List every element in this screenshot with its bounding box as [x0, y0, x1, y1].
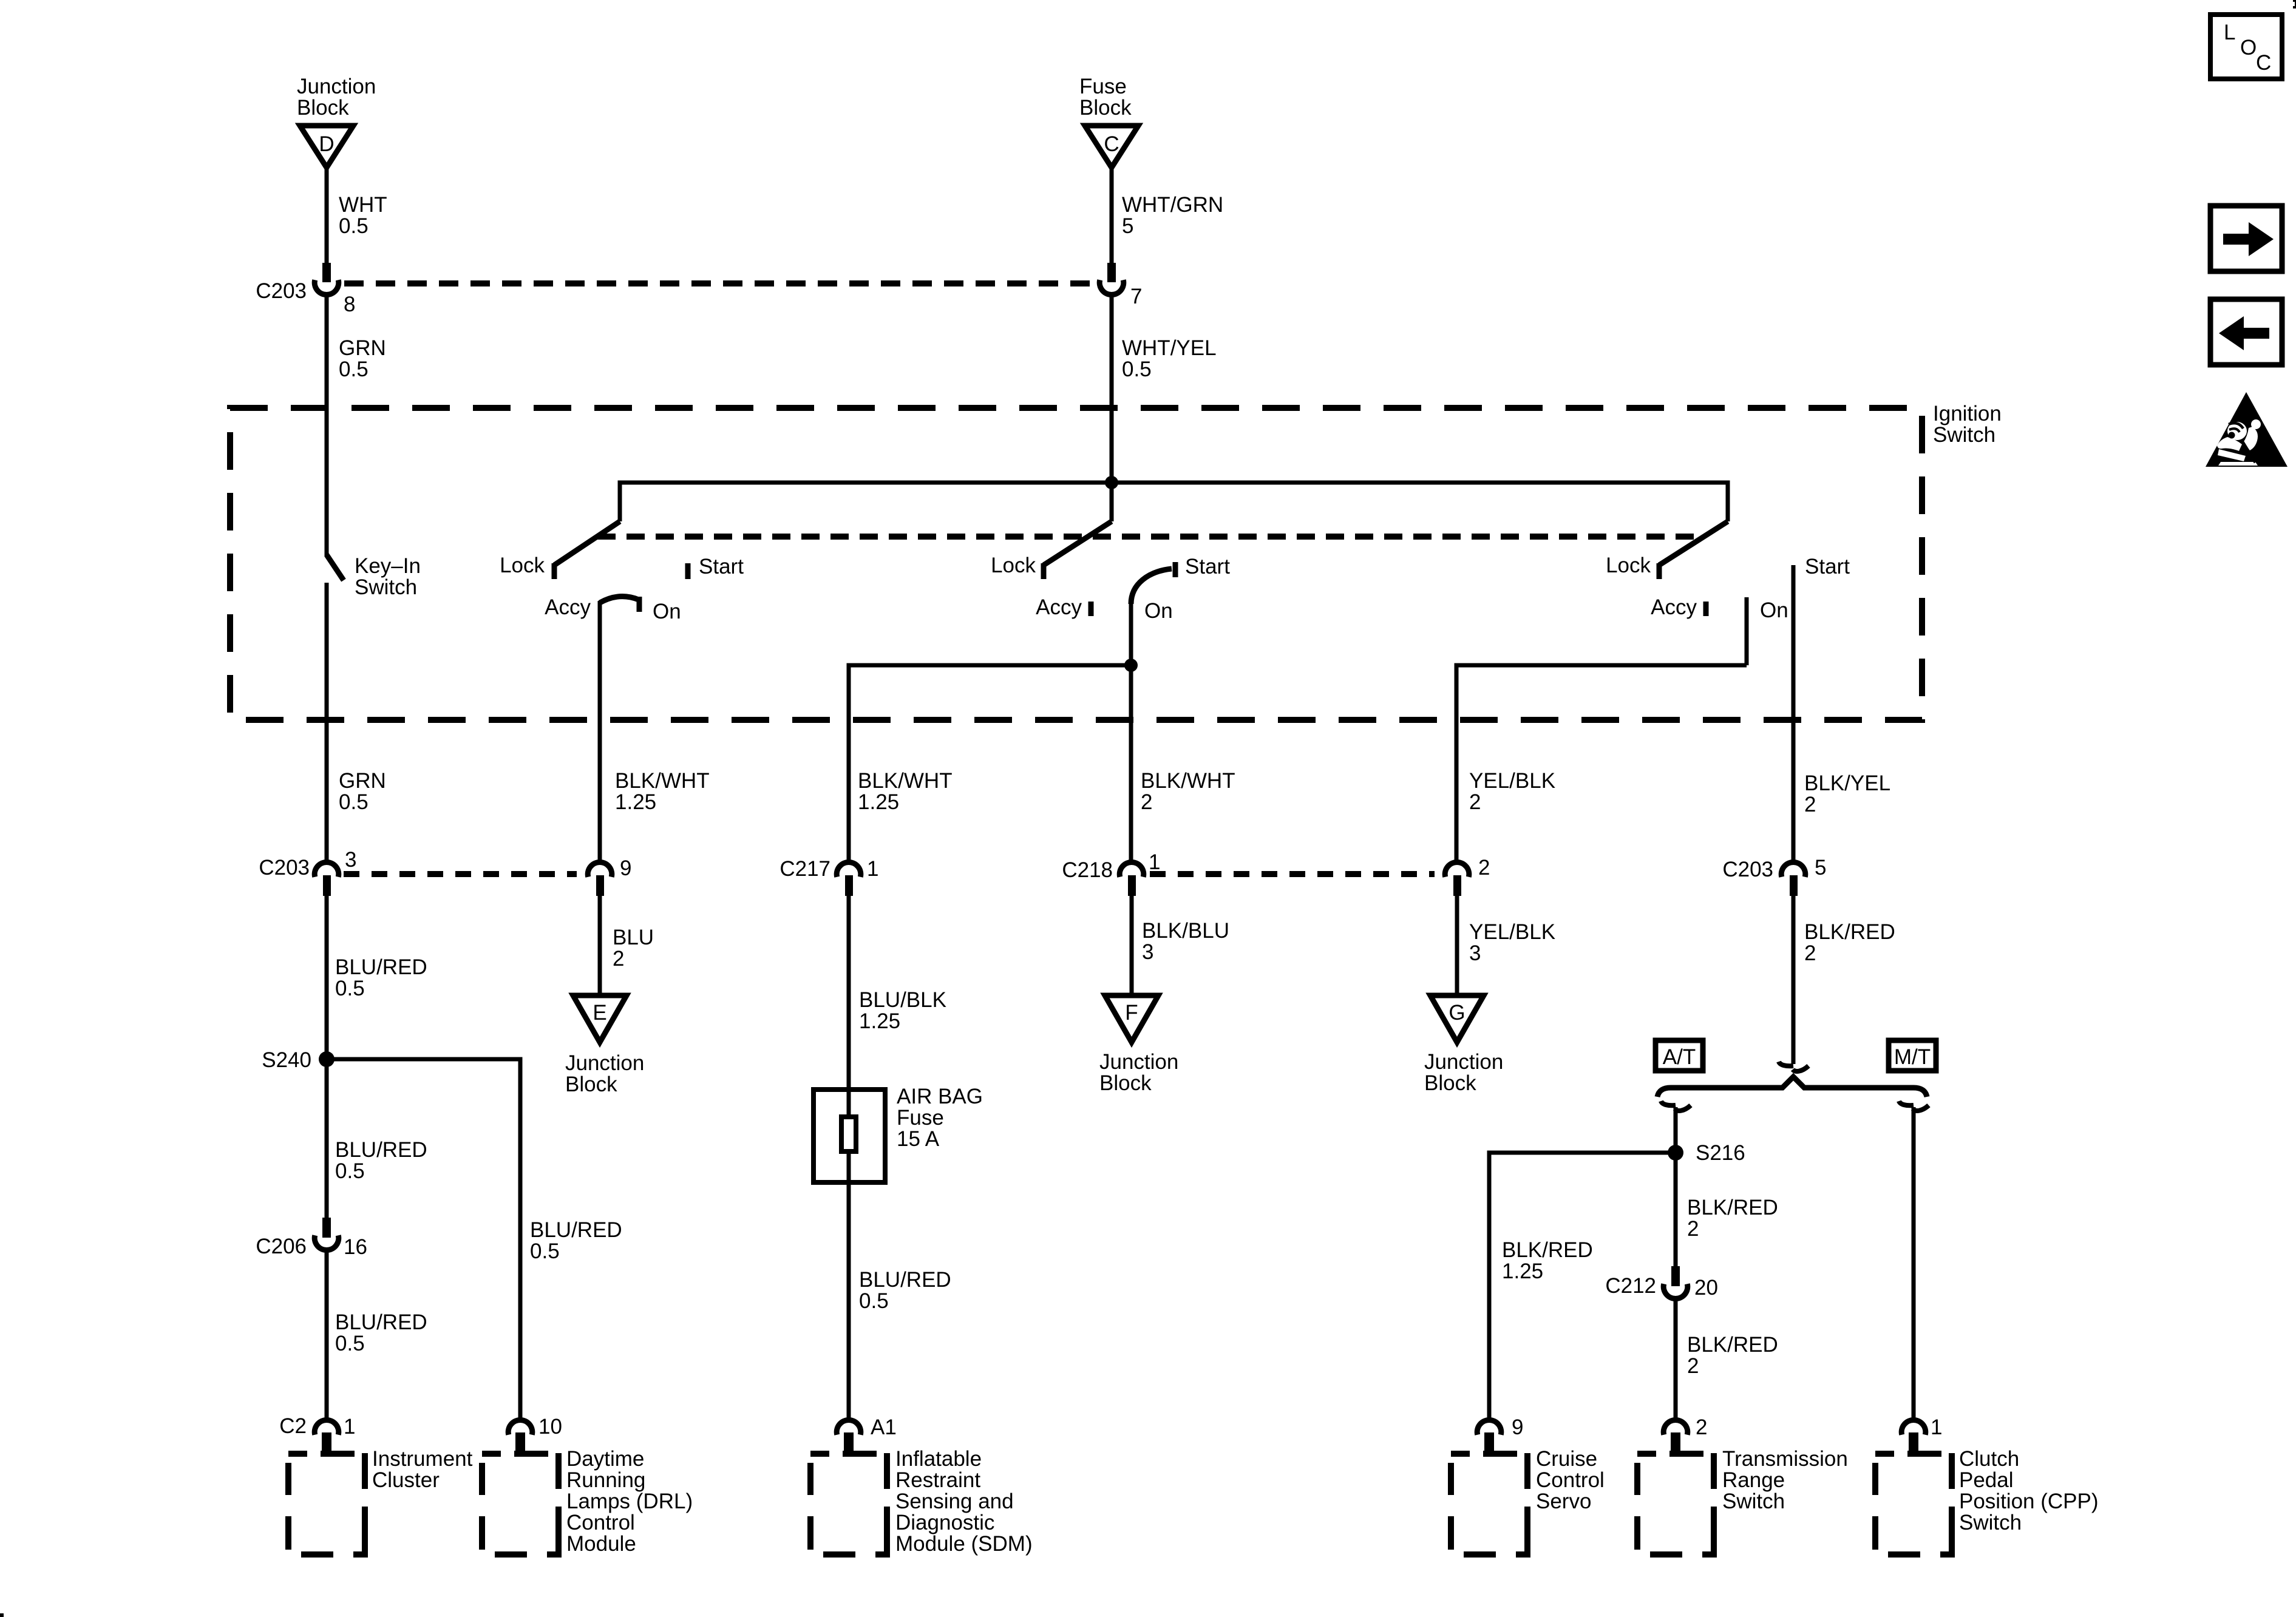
wire switch 3 Start contact (BLK/YEL feed) — [1792, 565, 1796, 862]
svg-text:1.25: 1.25 — [1502, 1259, 1543, 1283]
svg-text:A/T: A/T — [1663, 1045, 1696, 1069]
connector pin 1 (CPP switch) — [1901, 1415, 1942, 1454]
svg-text:BLU/RED: BLU/RED — [335, 1310, 427, 1334]
dotted mechanical link line — [597, 534, 1703, 540]
connector pin 10 (DRL module) — [508, 1415, 562, 1454]
svg-text:9: 9 — [620, 856, 631, 880]
wire BLU/BLK 1.25 (C217 to fuse) — [849, 895, 946, 1117]
svg-text:Block: Block — [565, 1073, 617, 1096]
forward arrow box — [2210, 206, 2282, 271]
wire BLU/RED 0.5 (S240 to C206) — [327, 1059, 427, 1218]
svg-text:Lock: Lock — [500, 554, 545, 577]
svg-text:On: On — [653, 600, 681, 623]
wire branch start/on to G — [1456, 665, 1747, 862]
svg-text:Clutch: Clutch — [1959, 1447, 2019, 1471]
svg-text:BLK/RED: BLK/RED — [1502, 1238, 1593, 1262]
wire A/T leg down to S216 — [1674, 1107, 1678, 1153]
label GRN 0.5 — [339, 769, 386, 814]
svg-text:C212: C212 — [1605, 1274, 1656, 1298]
svg-text:3: 3 — [1469, 941, 1481, 965]
svg-text:2: 2 — [1804, 793, 1816, 816]
wire col2 down to pin 9 — [598, 720, 602, 862]
wire bus drop middle — [1110, 483, 1114, 521]
svg-text:Instrument: Instrument — [372, 1447, 473, 1471]
dashed harness line C203 pins 8-7 — [344, 280, 1094, 286]
connector C218 pin 1 — [1062, 850, 1160, 896]
connector C2 pin 1 (instrument cluster) — [279, 1414, 355, 1454]
connector pin 9 (cruise servo) — [1477, 1415, 1523, 1454]
label BLK/WHT 1.25 (col2) — [615, 769, 710, 814]
svg-text:1: 1 — [867, 857, 878, 881]
svg-text:3: 3 — [345, 848, 356, 872]
daytime running lamps control module box — [482, 1447, 693, 1556]
wire BLU/RED 0.5 (fuse to SDM) — [849, 1151, 951, 1420]
svg-text:0.5: 0.5 — [335, 977, 365, 1000]
svg-text:3: 3 — [1142, 940, 1153, 964]
svg-text:2: 2 — [1469, 790, 1481, 814]
wire break mark (main) — [1779, 1062, 1809, 1071]
svg-text:F: F — [1125, 1001, 1138, 1025]
wire break mark (M/T leg) — [1899, 1101, 1929, 1111]
ignition switch dashed enclosure — [230, 402, 2002, 720]
svg-text:Junction: Junction — [1424, 1050, 1503, 1074]
svg-text:C203: C203 — [1722, 858, 1773, 881]
wire col1 down to C203-3 — [325, 720, 329, 862]
svg-text:Lock: Lock — [1606, 554, 1651, 577]
svg-text:BLU/RED: BLU/RED — [530, 1218, 622, 1242]
label BLK/YEL 2 (col6) — [1804, 771, 1890, 816]
wire break mark (A/T leg) — [1661, 1101, 1691, 1111]
svg-text:0.5: 0.5 — [859, 1289, 889, 1313]
svg-text:Restraint: Restraint — [895, 1468, 980, 1492]
svg-text:Fuse: Fuse — [897, 1106, 944, 1130]
svg-text:Running: Running — [566, 1468, 645, 1492]
svg-text:1: 1 — [344, 1415, 355, 1439]
svg-text:9: 9 — [1512, 1415, 1523, 1439]
svg-text:Key–In: Key–In — [355, 554, 421, 578]
svg-text:0.5: 0.5 — [339, 358, 369, 381]
svg-text:C: C — [1104, 132, 1119, 156]
svg-text:0.5: 0.5 — [530, 1239, 560, 1263]
wire switch 1 output — [598, 601, 602, 720]
svg-text:S216: S216 — [1696, 1141, 1745, 1165]
junction node S (switch2 output) — [1124, 659, 1138, 672]
junction block triangle D — [297, 75, 376, 168]
svg-text:WHT/YEL: WHT/YEL — [1122, 336, 1217, 360]
svg-text:BLU: BLU — [613, 926, 654, 949]
wire branch S240 to DRL module — [327, 1059, 520, 1420]
svg-text:Position (CPP): Position (CPP) — [1959, 1490, 2099, 1513]
wire BLK/RED 2 (S216 to C212) — [1676, 1153, 1778, 1266]
svg-text:C2: C2 — [279, 1414, 307, 1438]
AIR BAG fuse 15 A — [813, 1085, 983, 1182]
svg-text:Ignition: Ignition — [1933, 402, 2002, 425]
switch wiper 1 (accessory circuit) — [500, 521, 744, 623]
svg-text:0.5: 0.5 — [339, 790, 369, 814]
svg-text:GRN: GRN — [339, 336, 386, 360]
wire YEL/BLK 3 to junction block G — [1457, 895, 1555, 997]
svg-text:M/T: M/T — [1894, 1045, 1931, 1069]
svg-text:C203: C203 — [259, 856, 310, 880]
ignition switch common bus wire — [620, 483, 1728, 521]
svg-text:C218: C218 — [1062, 858, 1113, 882]
svg-text:BLU/RED: BLU/RED — [335, 955, 427, 979]
wire WHT 0.5 from D to C203 pin 8 — [327, 166, 387, 265]
wire GRN 0.5 from C203-8 into box (key-in feed) — [327, 336, 386, 557]
svg-text:Diagnostic: Diagnostic — [895, 1511, 994, 1534]
svg-text:BLK/WHT: BLK/WHT — [615, 769, 710, 793]
svg-text:2: 2 — [1687, 1354, 1699, 1378]
svg-text:Inflatable: Inflatable — [895, 1447, 982, 1471]
svg-text:WHT: WHT — [339, 193, 387, 217]
wire WHT/GRN 5 from C to C203 pin 7 — [1112, 166, 1223, 265]
svg-text:C: C — [2256, 51, 2271, 75]
connector pin 2 (TRS) — [1663, 1415, 1707, 1454]
svg-text:Block: Block — [1099, 1071, 1152, 1095]
svg-text:10: 10 — [538, 1415, 562, 1439]
switch wiper 2 (run circuit) — [991, 521, 1230, 623]
svg-text:On: On — [1760, 598, 1788, 622]
svg-text:5: 5 — [1122, 214, 1133, 238]
svg-text:1: 1 — [1149, 850, 1160, 874]
M/T tag box — [1889, 1040, 1936, 1071]
svg-text:2: 2 — [613, 947, 624, 971]
svg-text:Junction: Junction — [565, 1051, 644, 1075]
svg-text:D: D — [319, 132, 334, 156]
svg-text:Start: Start — [1805, 555, 1850, 578]
svg-text:A1: A1 — [871, 1415, 897, 1439]
svg-text:20: 20 — [1694, 1276, 1718, 1300]
svg-text:G: G — [1449, 1001, 1465, 1025]
svg-text:2: 2 — [1141, 790, 1152, 814]
svg-text:BLK/WHT: BLK/WHT — [1141, 769, 1235, 793]
dashed harness line C218 pins 1-2 — [1150, 871, 1435, 877]
connector pin 2 — [1445, 856, 1490, 896]
wire BLK/RED 2 (C203-5 down) — [1793, 895, 1895, 1064]
connector pin A1 (SDM) — [837, 1415, 897, 1454]
SDM box — [810, 1447, 1033, 1556]
connector pin 9 — [588, 856, 631, 896]
clutch pedal position switch box — [1875, 1447, 2099, 1554]
svg-text:Junction: Junction — [1099, 1050, 1178, 1074]
svg-text:2: 2 — [1804, 941, 1816, 965]
svg-text:1.25: 1.25 — [615, 790, 656, 814]
air bag warning triangle — [2206, 392, 2288, 467]
svg-text:Sensing and: Sensing and — [895, 1490, 1014, 1513]
svg-text:0.5: 0.5 — [335, 1159, 365, 1183]
svg-text:BLK/RED: BLK/RED — [1804, 920, 1895, 944]
junction node on bus (WHT/YEL feed) — [1105, 476, 1118, 489]
svg-text:BLU/RED: BLU/RED — [335, 1138, 427, 1162]
svg-text:Block: Block — [1424, 1071, 1476, 1095]
svg-text:BLK/RED: BLK/RED — [1687, 1196, 1778, 1219]
wire M/T leg down to CPP switch — [1912, 1107, 1916, 1420]
svg-text:YEL/BLK: YEL/BLK — [1469, 920, 1555, 944]
svg-text:Start: Start — [1185, 555, 1230, 578]
connector C203 pin 3 — [259, 848, 356, 896]
wire BLU/RED 0.5 (C203-3 to S240) — [327, 895, 427, 1059]
svg-text:BLU/RED: BLU/RED — [859, 1268, 951, 1292]
svg-text:Junction: Junction — [297, 75, 376, 98]
svg-text:Accy: Accy — [1036, 595, 1082, 619]
svg-text:2: 2 — [1687, 1217, 1699, 1241]
svg-text:2: 2 — [1478, 856, 1490, 880]
svg-text:GRN: GRN — [339, 769, 386, 793]
svg-text:BLK/RED: BLK/RED — [1687, 1333, 1778, 1357]
svg-text:0.5: 0.5 — [335, 1332, 365, 1355]
svg-text:Switch: Switch — [1933, 423, 1995, 447]
wire BLK/RED 2 (C212 to TRS) — [1676, 1300, 1778, 1420]
svg-text:Start: Start — [699, 555, 744, 578]
svg-text:5: 5 — [1815, 856, 1826, 880]
svg-text:16: 16 — [344, 1235, 367, 1259]
wire switch 3 On contact — [1745, 597, 1749, 665]
svg-text:Switch: Switch — [1959, 1511, 2022, 1534]
svg-text:Lamps (DRL): Lamps (DRL) — [566, 1490, 693, 1513]
svg-text:15 A: 15 A — [897, 1127, 940, 1151]
connector C203 pin 8 — [256, 263, 355, 413]
svg-text:Range: Range — [1722, 1468, 1785, 1492]
splice S216 — [1668, 1141, 1745, 1165]
switch wiper 3 (start circuit) — [1606, 521, 1850, 622]
label BLK/WHT 1.25 (col3) — [858, 769, 953, 814]
transmission range switch box — [1637, 1447, 1848, 1554]
svg-text:Switch: Switch — [355, 575, 417, 599]
svg-text:S240: S240 — [262, 1048, 311, 1072]
svg-text:Fuse: Fuse — [1079, 75, 1127, 98]
svg-text:On: On — [1144, 599, 1173, 623]
wire branch S216 to cruise control servo — [1489, 1153, 1676, 1420]
svg-text:E: E — [593, 1001, 606, 1025]
svg-text:Block: Block — [297, 96, 349, 120]
svg-text:C206: C206 — [256, 1235, 307, 1258]
svg-text:0.5: 0.5 — [1122, 358, 1152, 381]
svg-text:1.25: 1.25 — [859, 1009, 900, 1033]
svg-text:L: L — [2224, 21, 2235, 44]
svg-text:8: 8 — [344, 293, 355, 316]
svg-text:Pedal: Pedal — [1959, 1468, 2014, 1492]
back arrow box — [2210, 299, 2282, 365]
svg-text:Cruise: Cruise — [1536, 1447, 1597, 1471]
wire BLK/BLU 3 to junction block F — [1132, 895, 1229, 997]
junction block triangle G — [1424, 995, 1503, 1095]
svg-text:AIR BAG: AIR BAG — [897, 1085, 983, 1108]
svg-text:Block: Block — [1079, 96, 1132, 120]
svg-text:Switch: Switch — [1722, 1490, 1785, 1513]
svg-text:2: 2 — [1696, 1415, 1707, 1439]
wire BLU/RED 0.5 (C206 to C2) — [327, 1251, 427, 1420]
page artifact top-right — [2293, 0, 2296, 8]
svg-text:Accy: Accy — [1651, 595, 1697, 619]
wire BLU 2 to junction block E — [600, 895, 654, 997]
svg-text:Module (SDM): Module (SDM) — [895, 1532, 1033, 1556]
svg-text:Daytime: Daytime — [566, 1447, 644, 1471]
label BLK/WHT 2 (col4) — [1141, 769, 1235, 814]
svg-text:BLK/WHT: BLK/WHT — [858, 769, 953, 793]
svg-text:Module: Module — [566, 1532, 636, 1556]
A/T tag box — [1656, 1040, 1703, 1071]
svg-text:7: 7 — [1130, 285, 1142, 308]
junction block triangle F — [1099, 995, 1178, 1095]
svg-text:Accy: Accy — [545, 595, 591, 619]
svg-text:C203: C203 — [256, 279, 307, 303]
junction block triangle E — [565, 995, 644, 1096]
svg-text:Transmission: Transmission — [1722, 1447, 1848, 1471]
svg-text:YEL/BLK: YEL/BLK — [1469, 769, 1555, 793]
svg-text:Lock: Lock — [991, 554, 1036, 577]
connector C203 pin 7 — [1099, 263, 1142, 308]
svg-text:0.5: 0.5 — [339, 214, 369, 238]
instrument cluster box — [288, 1447, 473, 1554]
wire col4 down to C218 — [1129, 665, 1133, 862]
key-in switch — [327, 554, 421, 720]
splice S240 — [262, 1048, 335, 1072]
svg-text:BLK/YEL: BLK/YEL — [1804, 771, 1890, 795]
connector C203 pin 5 — [1722, 856, 1826, 896]
selection brace — [1657, 1077, 1927, 1097]
svg-text:Control: Control — [1536, 1468, 1605, 1492]
LOC reference box — [2210, 15, 2282, 79]
svg-text:O: O — [2240, 36, 2257, 59]
connector C212 pin 20 — [1605, 1266, 1718, 1300]
wire WHT/YEL 0.5 from pin 7 to ignition switch — [1112, 296, 1217, 483]
wire branch to SDM feed — [849, 665, 1131, 862]
connector C206 pin 16 — [256, 1218, 367, 1259]
page artifact bottom-left — [0, 1613, 4, 1617]
svg-text:WHT/GRN: WHT/GRN — [1122, 193, 1223, 217]
label BLU/RED 0.5 (DRL branch) — [530, 1218, 622, 1263]
svg-text:Control: Control — [566, 1511, 635, 1534]
label YEL/BLK 2 (col5) — [1469, 769, 1555, 814]
cruise control servo box — [1451, 1447, 1605, 1554]
svg-text:Cluster: Cluster — [372, 1468, 440, 1492]
wire switch 2 output — [1129, 601, 1133, 665]
svg-text:1: 1 — [1931, 1415, 1942, 1439]
dashed harness line C203 pins 3-9 — [344, 871, 577, 877]
svg-text:Servo: Servo — [1536, 1490, 1591, 1513]
fuse block triangle C — [1079, 75, 1138, 168]
svg-text:C217: C217 — [779, 857, 830, 881]
svg-text:BLU/BLK: BLU/BLK — [859, 988, 946, 1012]
svg-text:BLK/BLU: BLK/BLU — [1142, 919, 1229, 943]
connector C217 pin 1 — [779, 857, 878, 896]
svg-text:1.25: 1.25 — [858, 790, 899, 814]
